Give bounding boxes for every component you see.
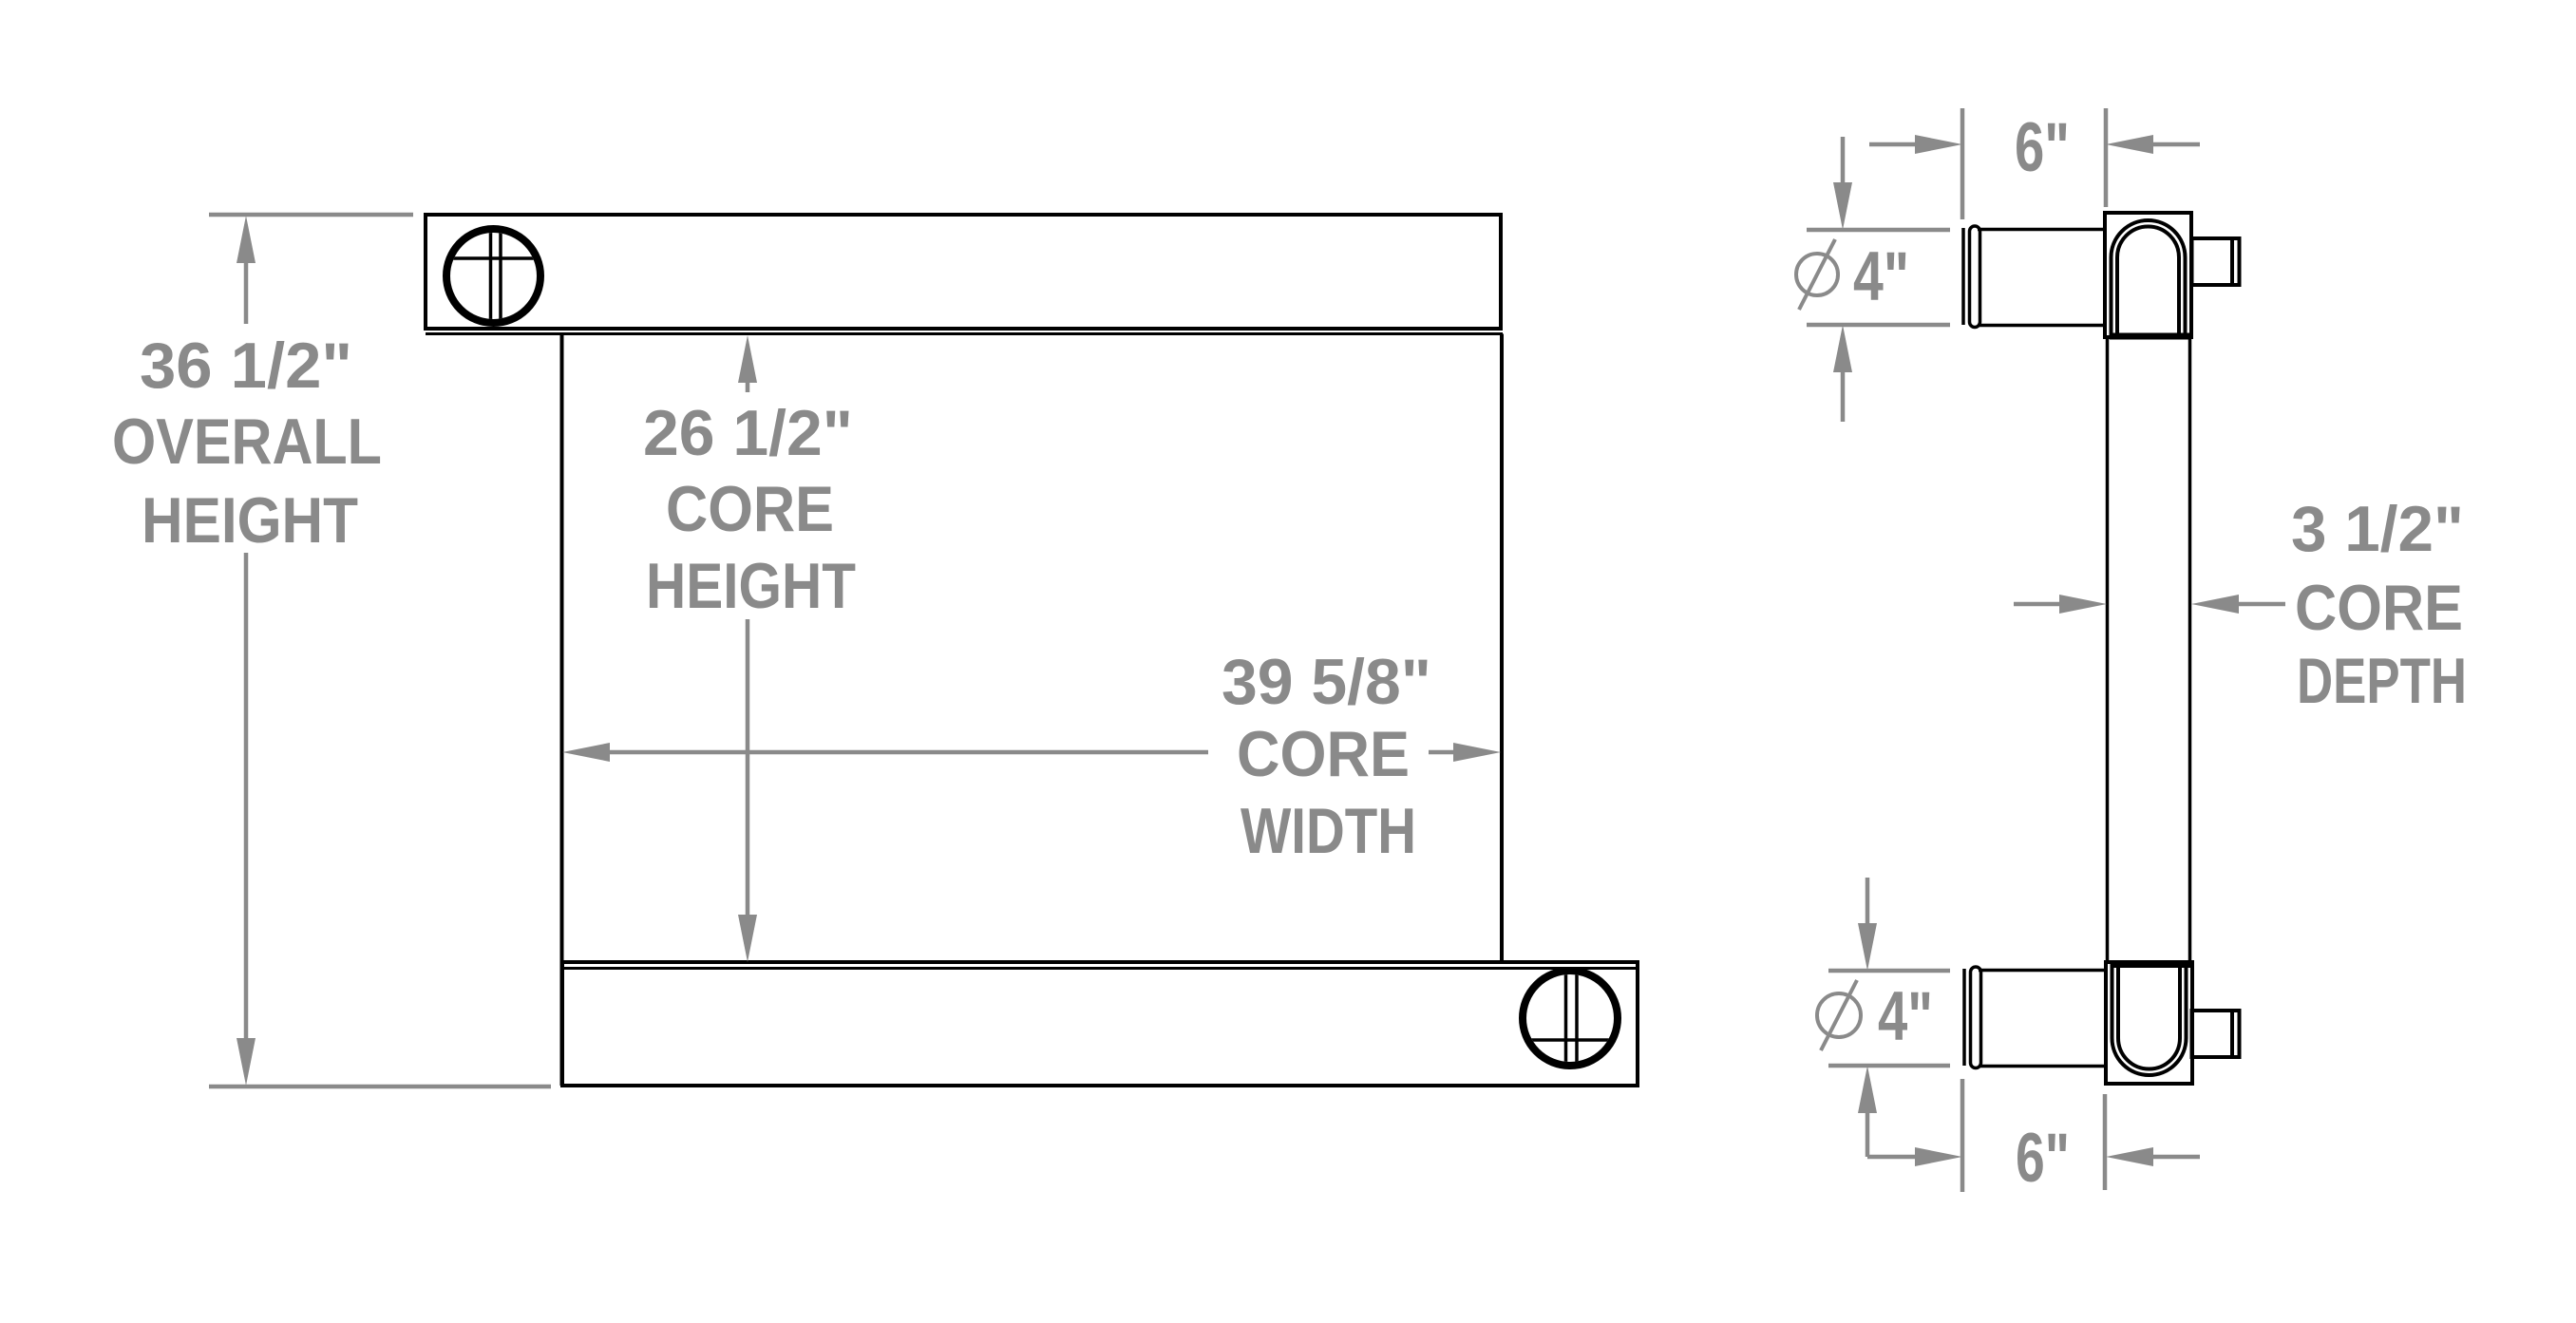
- core height dim lines: [746, 380, 750, 392]
- bottom pipe body: [1979, 969, 2106, 973]
- svg-text:26 1/2": 26 1/2": [643, 397, 853, 469]
- svg-text:4": 4": [1853, 238, 1909, 315]
- top header block: [2105, 213, 2191, 337]
- core width dim lines: [608, 750, 1208, 755]
- side: 6in top dim lines: [1869, 142, 1917, 147]
- dia symbol bottom: [1817, 993, 1861, 1037]
- core depth arrows: [2059, 595, 2107, 614]
- side: core depth dim lines: [2014, 602, 2061, 607]
- svg-text:DEPTH: DEPTH: [2297, 645, 2467, 717]
- side: dia4 top dim lines: [1841, 137, 1846, 184]
- svg-text:WIDTH: WIDTH: [1241, 795, 1416, 867]
- side: dia4 bottom dim lines: [1866, 878, 1870, 925]
- svg-text:CORE: CORE: [2295, 572, 2463, 644]
- svg-text:6": 6": [2015, 109, 2070, 186]
- top header plate line: [426, 332, 1503, 335]
- svg-text:HEIGHT: HEIGHT: [646, 550, 856, 622]
- dia symbol top: [1796, 254, 1838, 295]
- svg-text:36 1/2": 36 1/2": [140, 330, 352, 402]
- bottom header block: [2106, 962, 2192, 1084]
- bottom elbow arch inner: [2118, 962, 2180, 1069]
- svg-text:HEIGHT: HEIGHT: [142, 484, 358, 557]
- svg-text:OVERALL: OVERALL: [112, 406, 382, 478]
- dia4 bottom arrows: [1858, 923, 1877, 971]
- side: dia4 bottom extension lines: [1828, 969, 1950, 973]
- bottom pipe cap (hose bead): [1971, 967, 1981, 1068]
- overall height extension lines: [209, 213, 413, 217]
- bottom tank rectangle: [562, 962, 1638, 1086]
- core height arrows: [738, 335, 757, 383]
- svg-text:3 1/2": 3 1/2": [2291, 493, 2464, 565]
- top elbow arch inner: [2117, 227, 2179, 337]
- bottom block top thick line: [2111, 961, 2190, 968]
- bottom fitting circle: [1523, 970, 1618, 1067]
- side: 6in top extension lines: [1960, 108, 1965, 219]
- top block bottom thick line: [2110, 333, 2189, 340]
- overall height dim lines: [244, 260, 249, 324]
- 6in top arrows: [1915, 135, 1962, 154]
- top pipe body: [1978, 228, 2105, 232]
- svg-text:4": 4": [1878, 978, 1933, 1055]
- top elbow arch outer: [2112, 220, 2186, 337]
- dia4 top arrows: [1833, 182, 1852, 230]
- side: 6in bottom L dim line: [1867, 1155, 1917, 1160]
- bottom pipe end line: [1962, 969, 1966, 1066]
- side: dia4 top extension lines: [1807, 228, 1950, 233]
- svg-text:39 5/8": 39 5/8": [1222, 646, 1431, 718]
- bottom elbow arch outer: [2112, 962, 2187, 1075]
- bottom header plate line: [562, 967, 1638, 970]
- svg-text:CORE: CORE: [1237, 718, 1410, 790]
- top stub: [2192, 238, 2240, 285]
- top fitting circle: [446, 228, 541, 324]
- svg-text:6": 6": [2016, 1120, 2070, 1197]
- side: 6in bottom extension lines: [1960, 1079, 1965, 1192]
- svg-text:CORE: CORE: [666, 473, 834, 545]
- arrowheads (grey filled): [237, 135, 2239, 1166]
- core left edge (continues as bottom tank left edge): [560, 334, 564, 1087]
- core right edge: [1500, 334, 1504, 963]
- top pipe cap (hose bead): [1970, 226, 1980, 328]
- top pipe end line: [1961, 228, 1965, 325]
- 6in bottom arrows: [1915, 1147, 1962, 1166]
- bottom stub: [2192, 1011, 2240, 1057]
- top tank rectangle: [426, 215, 1501, 329]
- core column: [2106, 337, 2110, 962]
- core width arrows: [562, 743, 610, 762]
- overall height arrows: [237, 216, 256, 263]
